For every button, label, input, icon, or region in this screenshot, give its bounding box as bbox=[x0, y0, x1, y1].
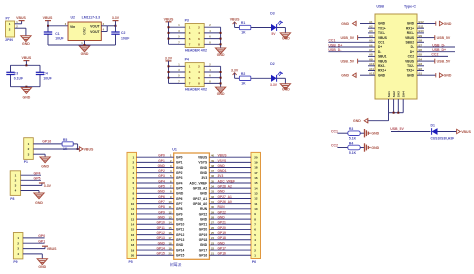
svg-text:R3: R3 bbox=[349, 127, 353, 131]
svg-text:GND: GND bbox=[371, 146, 379, 150]
svg-text:VOUT: VOUT bbox=[90, 30, 100, 34]
svg-text:10UF: 10UF bbox=[43, 76, 51, 80]
svg-text:RUN: RUN bbox=[218, 205, 226, 209]
svg-text:27: 27 bbox=[211, 221, 215, 225]
svg-text:VSYS: VSYS bbox=[198, 161, 208, 165]
svg-text:20: 20 bbox=[168, 252, 172, 256]
ground (USB A12) bbox=[341, 73, 368, 78]
svg-text:GND: GND bbox=[41, 164, 49, 168]
pin B10 USB right bbox=[417, 29, 424, 33]
resistor R5 1K bbox=[62, 138, 73, 151]
capacitor C4 10UF bbox=[36, 65, 52, 86]
svg-text:23: 23 bbox=[211, 241, 215, 245]
svg-text:18: 18 bbox=[131, 243, 135, 247]
power port 3.3V (D2 circuit) bbox=[231, 68, 239, 78]
pin B11 USB right bbox=[417, 25, 424, 29]
svg-text:VBUS: VBUS bbox=[47, 247, 57, 251]
svg-text:A11: A11 bbox=[369, 67, 374, 71]
svg-text:2PIN: 2PIN bbox=[5, 38, 13, 42]
svg-text:17: 17 bbox=[131, 238, 135, 242]
node GP5 / wire P8 pin2 bbox=[21, 176, 41, 180]
svg-text:1K: 1K bbox=[241, 31, 246, 35]
wire C3 C4 bottom rail bbox=[11, 86, 41, 88]
svg-text:GND: GND bbox=[176, 166, 184, 170]
svg-text:GP16: GP16 bbox=[42, 140, 51, 144]
svg-text:GND: GND bbox=[218, 241, 226, 245]
wire GP7 P5 pin 10 to U1 pin 10 / node GP7 bbox=[137, 200, 174, 204]
wire R1 to D3 bbox=[251, 27, 271, 29]
svg-text:GP4: GP4 bbox=[34, 171, 41, 175]
svg-text:GP1: GP1 bbox=[38, 239, 45, 243]
svg-text:P8: P8 bbox=[10, 197, 14, 201]
wire regulator ground rail bbox=[48, 41, 116, 47]
connector P9 4pin bbox=[13, 233, 23, 265]
pin A7 USB left bbox=[368, 48, 375, 52]
svg-text:VOUT: VOUT bbox=[90, 25, 100, 29]
svg-text:VBUS: VBUS bbox=[164, 18, 174, 22]
svg-text:GP13: GP13 bbox=[176, 238, 185, 242]
connector P3 HEADER 4X2 bbox=[185, 18, 207, 52]
svg-text:CC1: CC1 bbox=[328, 39, 335, 43]
svg-text:GP3: GP3 bbox=[158, 174, 165, 178]
svg-text:GND: GND bbox=[22, 42, 30, 46]
wire P1 pin2 to VBUS junction bbox=[33, 148, 77, 150]
svg-text:GP21: GP21 bbox=[199, 223, 208, 227]
svg-text:GP6: GP6 bbox=[176, 197, 183, 201]
svg-text:GND: GND bbox=[371, 132, 379, 136]
svg-text:VBUS: VBUS bbox=[43, 16, 53, 20]
svg-text:VBUS: VBUS bbox=[198, 156, 208, 160]
svg-text:D+: D+ bbox=[410, 50, 414, 54]
svg-text:GP5: GP5 bbox=[158, 185, 165, 189]
wire P9 pin4 to GND bbox=[23, 254, 42, 259]
svg-text:16: 16 bbox=[131, 233, 135, 237]
svg-text:VBUS: VBUS bbox=[378, 59, 387, 63]
svg-text:P1: P1 bbox=[24, 160, 28, 164]
svg-text:14: 14 bbox=[168, 221, 172, 225]
wire GP14 P5 pin 19 to U1 pin 19 / node GP14 bbox=[137, 246, 174, 250]
svg-text:GP11: GP11 bbox=[176, 228, 184, 232]
wire VBUS to U2 Vin bbox=[47, 25, 68, 27]
svg-text:U2: U2 bbox=[71, 16, 76, 20]
svg-text:32: 32 bbox=[211, 195, 215, 199]
svg-text:GND: GND bbox=[200, 243, 208, 247]
wire GP16 U1 pin 21 to P6 pin 1 / node GP16 bbox=[209, 252, 251, 256]
connector P7 bbox=[5, 17, 14, 43]
svg-text:B2: B2 bbox=[419, 67, 423, 71]
svg-text:GP6: GP6 bbox=[158, 195, 165, 199]
svg-text:GP9: GP9 bbox=[176, 212, 183, 216]
svg-text:GND: GND bbox=[176, 243, 184, 247]
pin A9 USB left bbox=[368, 57, 375, 61]
svg-text:GP0: GP0 bbox=[158, 154, 165, 158]
svg-text:GP1: GP1 bbox=[158, 159, 165, 163]
svg-text:B8: B8 bbox=[419, 39, 423, 43]
wire U2 VOUT pins join bbox=[101, 25, 116, 32]
wire 3.3V rail to P4 odd pins bbox=[168, 61, 186, 84]
wire USB_D- (USB B7) bbox=[424, 43, 455, 47]
svg-text:D3: D3 bbox=[270, 11, 274, 15]
wire C3 C4 top rail bbox=[11, 64, 41, 66]
wire GP10 P5 pin 14 to U1 pin 14 / node GP10 bbox=[137, 221, 174, 225]
svg-text:GP28_A2: GP28_A2 bbox=[193, 186, 208, 190]
svg-text:A3: A3 bbox=[369, 29, 373, 33]
svg-text:VBUS: VBUS bbox=[405, 59, 414, 63]
wire VBUS rail to P3 odd pins bbox=[168, 22, 186, 45]
wire GP19 U1 pin 25 to P6 pin 5 / node GP19 bbox=[209, 231, 251, 235]
svg-text:B9: B9 bbox=[419, 34, 423, 38]
svg-text:3.3V: 3.3V bbox=[165, 57, 173, 61]
wire GND U1 pin 33 to P6 pin 13 / node GND bbox=[209, 190, 251, 194]
resistor R3 5.1K bbox=[348, 127, 360, 141]
wire USB shield pins to GND bbox=[368, 99, 403, 121]
ground (P7) bbox=[21, 36, 31, 46]
ground (P8) bbox=[34, 193, 44, 205]
svg-text:GND: GND bbox=[282, 37, 290, 41]
ground (P4) bbox=[216, 87, 226, 96]
svg-text:P9: P9 bbox=[13, 260, 17, 264]
power port USB_5V (USB B4) bbox=[424, 59, 451, 64]
svg-text:28: 28 bbox=[211, 216, 215, 220]
svg-text:P3: P3 bbox=[185, 18, 189, 22]
pin A3 USB left bbox=[368, 29, 375, 33]
svg-text:17: 17 bbox=[168, 236, 172, 240]
power port VBUS (P1) bbox=[78, 147, 94, 152]
svg-text:17: 17 bbox=[254, 171, 258, 175]
ground (D3 circuit) bbox=[280, 33, 290, 41]
svg-text:B1: B1 bbox=[419, 72, 423, 76]
node CC1 / wire CC1 to R3 bbox=[331, 129, 348, 133]
wire P7 pin2 to GND bbox=[15, 25, 26, 36]
ground (D2 circuit) bbox=[280, 84, 290, 92]
pin B2 USB right bbox=[417, 67, 424, 71]
wire D3 to GND bbox=[277, 28, 286, 33]
svg-text:GND: GND bbox=[218, 190, 226, 194]
wire CC1 (USB A5) / node CC1 bbox=[328, 39, 368, 43]
svg-text:A4: A4 bbox=[369, 34, 373, 38]
svg-text:GND: GND bbox=[341, 22, 349, 26]
svg-text:GND: GND bbox=[378, 22, 386, 26]
svg-text:ADC_VREF: ADC_VREF bbox=[218, 179, 236, 183]
svg-text:5.1K: 5.1K bbox=[349, 151, 357, 155]
connector P8 4pin bbox=[10, 171, 20, 201]
svg-text:GP20: GP20 bbox=[199, 228, 208, 232]
LED D2 bbox=[270, 62, 283, 87]
capacitor C3 0.1UF bbox=[6, 65, 23, 86]
wire GP22 U1 pin 29 to P6 pin 9 / node GP22 bbox=[209, 210, 251, 214]
power port USB_5V (USB A9) bbox=[341, 59, 369, 64]
svg-text:GP5: GP5 bbox=[176, 186, 183, 190]
svg-text:GND: GND bbox=[444, 74, 452, 78]
svg-text:RX1-: RX1- bbox=[407, 31, 414, 35]
svg-text:GP17: GP17 bbox=[218, 246, 227, 250]
wire GP1 P5 pin 2 to U1 pin 2 / node GP1 bbox=[137, 159, 174, 163]
pin A1 USB left bbox=[368, 20, 375, 24]
svg-text:B3: B3 bbox=[419, 62, 423, 66]
svg-text:ADC_VREF: ADC_VREF bbox=[189, 181, 207, 185]
node GP1 / wire P9 pin2 bbox=[23, 239, 45, 243]
wire GND1 U1 pin 37 to P6 pin 17 / node GND1 bbox=[209, 169, 251, 173]
svg-text:GND: GND bbox=[353, 119, 361, 123]
svg-text:TX1+: TX1+ bbox=[378, 26, 386, 30]
wire GND P5 pin 18 to U1 pin 18 / node GND bbox=[137, 241, 174, 245]
svg-text:C2: C2 bbox=[121, 31, 125, 35]
svg-text:GND: GND bbox=[217, 92, 225, 96]
svg-text:GP21: GP21 bbox=[218, 221, 227, 225]
svg-text:D-: D- bbox=[411, 45, 414, 49]
svg-text:VBUS: VBUS bbox=[230, 18, 240, 22]
svg-text:GND: GND bbox=[158, 241, 166, 245]
svg-text:SH2: SH2 bbox=[392, 91, 396, 97]
svg-text:29: 29 bbox=[211, 210, 215, 214]
svg-text:10: 10 bbox=[168, 200, 172, 204]
svg-text:21: 21 bbox=[211, 252, 215, 256]
svg-text:VBUS: VBUS bbox=[405, 36, 414, 40]
svg-text:GND: GND bbox=[218, 164, 226, 168]
wire GP26_A0 U1 pin 31 to P6 pin 11 / node GP26_A0 bbox=[209, 200, 251, 204]
svg-text:GP0: GP0 bbox=[176, 156, 183, 160]
svg-text:A9: A9 bbox=[369, 57, 373, 61]
svg-text:USB_5V: USB_5V bbox=[341, 59, 355, 63]
svg-text:12: 12 bbox=[254, 197, 258, 201]
power port USB_5V (USB B9) bbox=[424, 35, 451, 40]
wire GND U1 pin 28 to P6 pin 8 / node GND bbox=[209, 216, 251, 220]
svg-text:B4: B4 bbox=[419, 57, 423, 61]
pin A2 USB left bbox=[368, 25, 375, 29]
svg-text:A6: A6 bbox=[369, 43, 373, 47]
svg-text:A2: A2 bbox=[369, 25, 373, 29]
svg-text:3.3V: 3.3V bbox=[112, 16, 120, 20]
wire P8 pin4 to GND bbox=[21, 191, 39, 194]
connector P6 right edge strip bbox=[251, 152, 261, 264]
svg-text:11: 11 bbox=[131, 207, 135, 211]
wire 3.3V to R2 bbox=[235, 77, 240, 79]
svg-text:GP12: GP12 bbox=[156, 231, 165, 235]
svg-text:GND: GND bbox=[200, 166, 208, 170]
svg-text:38: 38 bbox=[211, 164, 215, 168]
svg-text:13: 13 bbox=[168, 216, 172, 220]
svg-text:GND: GND bbox=[158, 216, 166, 220]
svg-text:GND: GND bbox=[217, 53, 225, 57]
svg-text:CUS10S30,H3F: CUS10S30,H3F bbox=[431, 137, 455, 141]
svg-text:3V3: 3V3 bbox=[201, 176, 207, 180]
svg-text:13: 13 bbox=[254, 192, 258, 196]
svg-text:13: 13 bbox=[131, 217, 135, 221]
resistor R1 1K bbox=[239, 21, 250, 34]
svg-text:CC1: CC1 bbox=[378, 41, 385, 45]
svg-text:GP16: GP16 bbox=[218, 252, 227, 256]
svg-text:11: 11 bbox=[254, 202, 258, 206]
svg-text:TX2-: TX2- bbox=[407, 64, 414, 68]
svg-text:CC2: CC2 bbox=[408, 55, 415, 59]
svg-text:U1: U1 bbox=[172, 148, 177, 152]
svg-text:SBU1: SBU1 bbox=[378, 55, 387, 59]
wire VBUS to R1 bbox=[235, 27, 240, 29]
svg-text:SH4: SH4 bbox=[402, 91, 406, 97]
power port VBUS (regulator input) bbox=[43, 16, 53, 26]
svg-text:C3: C3 bbox=[14, 71, 18, 75]
wire USB_D+ (USB B6) bbox=[424, 48, 455, 52]
svg-text:GP7: GP7 bbox=[158, 200, 165, 204]
svg-text:15: 15 bbox=[168, 226, 172, 230]
svg-text:A10: A10 bbox=[369, 62, 375, 66]
ground (regulator) bbox=[79, 46, 89, 56]
wire P7 pin1 to VBUS bbox=[15, 20, 22, 24]
svg-text:5V: 5V bbox=[271, 32, 276, 36]
svg-text:19: 19 bbox=[131, 248, 135, 252]
node CC2 / wire CC2 to R4 bbox=[331, 144, 348, 148]
wire GP13 P5 pin 17 to U1 pin 17 / node GP13 bbox=[137, 236, 174, 240]
svg-text:TX2+: TX2+ bbox=[406, 69, 414, 73]
svg-text:D1: D1 bbox=[431, 123, 435, 127]
wire GND P5 pin 8 to U1 pin 8 / node GND bbox=[137, 190, 174, 194]
svg-text:TX1-: TX1- bbox=[378, 31, 385, 35]
svg-text:33: 33 bbox=[211, 190, 215, 194]
wire GP2 P5 pin 4 to U1 pin 4 / node GP2 bbox=[137, 169, 174, 173]
pin B9 USB right bbox=[417, 34, 424, 38]
svg-text:GP19: GP19 bbox=[199, 233, 208, 237]
pin A5 USB left bbox=[368, 39, 375, 43]
svg-text:P6: P6 bbox=[252, 260, 256, 264]
svg-text:16: 16 bbox=[168, 231, 172, 235]
connector P1 3pin bbox=[24, 138, 34, 164]
svg-text:HEADER 4X2: HEADER 4X2 bbox=[185, 88, 207, 92]
wire R2 to D2 bbox=[251, 77, 271, 79]
svg-text:GP22: GP22 bbox=[218, 210, 227, 214]
op-amp U2 LM1117-3.3 body bbox=[65, 16, 105, 46]
pin B4 USB right bbox=[417, 57, 424, 61]
svg-text:GND: GND bbox=[176, 217, 184, 221]
svg-text:GND: GND bbox=[407, 22, 415, 26]
svg-text:10UF: 10UF bbox=[121, 37, 129, 41]
power port VBUS (C3 C4) bbox=[22, 56, 32, 65]
IC U1 Raspberry Pi Pico bbox=[170, 148, 209, 268]
svg-text:GP2: GP2 bbox=[176, 171, 183, 175]
svg-text:B10: B10 bbox=[419, 29, 425, 33]
svg-text:CC2: CC2 bbox=[331, 144, 338, 148]
svg-text:GP8: GP8 bbox=[176, 207, 183, 211]
svg-text:SBU2: SBU2 bbox=[405, 41, 414, 45]
wire GP28_A2 U1 pin 34 to P6 pin 14 / node GP28_A2 bbox=[209, 185, 251, 189]
svg-text:GP11: GP11 bbox=[157, 226, 165, 230]
svg-text:VBUS: VBUS bbox=[378, 36, 387, 40]
svg-text:GND: GND bbox=[407, 73, 415, 77]
svg-text:GP12: GP12 bbox=[176, 233, 185, 237]
svg-text:VBUS: VBUS bbox=[218, 154, 228, 158]
wire GND P5 pin 3 to U1 pin 3 / node GND bbox=[137, 164, 174, 168]
wire R5 to VBUS junction bbox=[73, 144, 78, 150]
svg-text:GP10: GP10 bbox=[176, 223, 185, 227]
svg-text:R5: R5 bbox=[63, 138, 67, 142]
wire ADC_VREF U1 pin 35 to P6 pin 15 / node ADC_VREF bbox=[209, 179, 251, 183]
power port USB_5V (USB A4) bbox=[341, 35, 369, 40]
wire GP17 U1 pin 22 to P6 pin 2 / node GP17 bbox=[209, 246, 251, 250]
svg-text:B5: B5 bbox=[419, 53, 423, 57]
svg-text:GP2: GP2 bbox=[158, 169, 165, 173]
svg-text:GP20: GP20 bbox=[218, 226, 227, 230]
svg-text:GP28_A2: GP28_A2 bbox=[218, 185, 232, 189]
wire GP9 P5 pin 12 to U1 pin 12 / node GP9 bbox=[137, 210, 174, 214]
svg-text:3.3V: 3.3V bbox=[270, 83, 278, 87]
ground (USB B1) bbox=[424, 73, 452, 78]
wire GP0 P5 pin 1 to U1 pin 1 / node GP0 bbox=[137, 154, 174, 158]
svg-text:Vin: Vin bbox=[70, 25, 75, 29]
svg-text:GP4: GP4 bbox=[176, 181, 183, 185]
LED D3 bbox=[270, 11, 283, 36]
svg-text:14: 14 bbox=[254, 186, 258, 190]
node USB_5V / wire USB_5V to D1 bbox=[390, 127, 430, 131]
power port 3.3V (P4) bbox=[165, 57, 173, 61]
svg-text:18: 18 bbox=[254, 166, 258, 170]
ground (USB shield) bbox=[353, 119, 368, 124]
svg-text:12: 12 bbox=[168, 210, 172, 214]
wire GP8 P5 pin 11 to U1 pin 11 / node GP8 bbox=[137, 205, 174, 209]
wire GND rail from P4 even pins bbox=[204, 62, 221, 87]
svg-text:GND1: GND1 bbox=[218, 169, 227, 173]
wire GP18 U1 pin 24 to P6 pin 4 / node GP18 bbox=[209, 236, 251, 240]
svg-text:USB_5V: USB_5V bbox=[437, 36, 451, 40]
wire CC2 (USB B5) / node CC2 bbox=[424, 53, 448, 57]
svg-text:24: 24 bbox=[211, 236, 215, 240]
wire GP27_A1 U1 pin 32 to P6 pin 12 / node GP27_A1 bbox=[209, 195, 251, 199]
svg-text:A12: A12 bbox=[369, 72, 375, 76]
wire USB_D- (USB A7) / node USB_D- bbox=[328, 48, 368, 52]
svg-text:GND: GND bbox=[444, 22, 452, 26]
svg-text:34: 34 bbox=[211, 185, 215, 189]
svg-text:A8: A8 bbox=[369, 53, 373, 57]
svg-text:11: 11 bbox=[169, 205, 172, 209]
node GP16 / wire P1 pin1 to R5 bbox=[33, 140, 62, 144]
svg-text:B12: B12 bbox=[419, 20, 425, 24]
wire D2 to GND bbox=[277, 78, 286, 83]
wire P1 pin3 to GND bbox=[33, 154, 45, 157]
wire GND P5 pin 13 to U1 pin 13 / node GND bbox=[137, 216, 174, 220]
svg-text:1K: 1K bbox=[241, 81, 246, 85]
wire GP11 P5 pin 15 to U1 pin 15 / node GP11 bbox=[137, 226, 174, 230]
pin B6 USB right bbox=[417, 48, 424, 52]
capacitor C2 10UF bbox=[111, 26, 129, 45]
wire GP6 P5 pin 9 to U1 pin 9 / node GP6 bbox=[137, 195, 174, 199]
pin A8 USB left bbox=[368, 53, 375, 57]
svg-text:GND: GND bbox=[200, 192, 208, 196]
power port VBUS (D1) bbox=[457, 129, 472, 134]
wire 3V3 U1 pin 36 to P6 pin 16 / node 3V3 bbox=[209, 174, 251, 178]
svg-text:GND: GND bbox=[23, 96, 31, 100]
svg-text:31: 31 bbox=[211, 200, 215, 204]
ground (USB A1) bbox=[341, 21, 368, 26]
svg-text:26: 26 bbox=[211, 226, 215, 230]
svg-text:USB_D+: USB_D+ bbox=[432, 48, 446, 52]
svg-text:GP18: GP18 bbox=[218, 236, 227, 240]
svg-text:USB: USB bbox=[376, 4, 384, 8]
power port VBUS (P9) bbox=[42, 246, 57, 251]
ground (C3 C4) bbox=[21, 88, 31, 100]
svg-text:RUN: RUN bbox=[200, 207, 208, 211]
svg-text:GP27_A1: GP27_A1 bbox=[193, 197, 208, 201]
svg-text:D+: D+ bbox=[378, 45, 382, 49]
svg-text:GP22: GP22 bbox=[199, 212, 208, 216]
svg-text:GND: GND bbox=[200, 217, 208, 221]
svg-text:GND: GND bbox=[218, 216, 226, 220]
connector P5 left edge strip bbox=[127, 152, 137, 264]
svg-text:CC1: CC1 bbox=[331, 129, 338, 133]
power port VBUS (P7) bbox=[16, 16, 26, 20]
pin B5 USB right bbox=[417, 53, 424, 57]
svg-text:A5: A5 bbox=[369, 39, 373, 43]
svg-text:GND: GND bbox=[35, 201, 43, 205]
wire GP12 P5 pin 16 to U1 pin 16 / node GP12 bbox=[137, 231, 174, 235]
svg-text:B11: B11 bbox=[419, 25, 424, 29]
